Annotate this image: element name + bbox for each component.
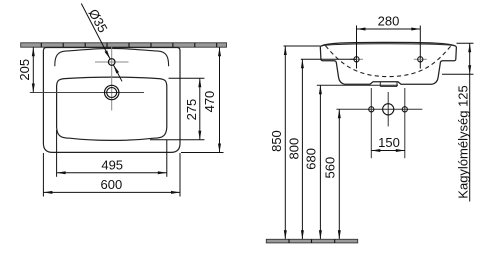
- tap hole centerline horizontal: [95, 61, 129, 63]
- dimension 280 (top): [357, 28, 421, 30]
- rim top front arc: [320, 42, 456, 46]
- deck inner back line: [55, 48, 169, 66]
- svg-text:150: 150: [378, 135, 400, 150]
- svg-text:800: 800: [287, 138, 302, 160]
- trap circles: [369, 107, 374, 112]
- svg-text:280: 280: [378, 14, 400, 29]
- mounting hole centerline ticks: [350, 58, 427, 60]
- svg-text:275: 275: [184, 99, 199, 121]
- bowl depth extension lines: [457, 42, 474, 44]
- svg-text:Kagylómélység 125: Kagylómélység 125: [455, 85, 470, 198]
- mounting hole extension lines (vertical): [357, 26, 421, 69]
- svg-text:470: 470: [202, 91, 217, 113]
- tap hole Ø35: [108, 59, 115, 66]
- dimension 600 (bottom outer): [43, 153, 180, 197]
- drain centerline / 205 extension line: [30, 92, 144, 94]
- dimension 495 (bottom inner): [57, 130, 167, 177]
- wall section bar (top): [21, 43, 227, 47]
- svg-text:560: 560: [323, 157, 338, 179]
- bowl depth dimension line (Kagylómélység 125): [469, 43, 471, 201]
- dimension line 560: [338, 109, 340, 239]
- basin outer rim (top view rounded rectangle): [43, 48, 180, 153]
- dimension 470 (right outer): [181, 47, 224, 152]
- extension line 680 (basin bottom level): [317, 84, 398, 86]
- drain/trap centerline (560 extension): [336, 108, 422, 110]
- dimension 205 (left): [32, 47, 34, 92]
- dimension line 850: [284, 46, 286, 239]
- svg-text:850: 850: [269, 130, 284, 152]
- trap vertical lines: [371, 88, 405, 158]
- dimension line 680: [319, 85, 321, 239]
- svg-text:495: 495: [101, 157, 123, 172]
- dimension line 800: [301, 59, 303, 239]
- dimension 150: [371, 150, 405, 152]
- floor section bar (bottom): [266, 239, 357, 243]
- extension line 850 (rim level): [284, 45, 321, 47]
- rim back edge arc: [321, 44, 455, 46]
- drain tab (front outline lower box): [380, 82, 397, 87]
- Ø35 leader line with arrows: [81, 4, 122, 82]
- svg-text:600: 600: [101, 177, 123, 192]
- extension line 800 (hole level): [301, 58, 357, 60]
- basin front outline: [320, 47, 456, 84]
- drain (double circle): [105, 85, 119, 99]
- svg-text:205: 205: [17, 59, 32, 81]
- dashed bowl section curve: [326, 46, 452, 77]
- mounting holes: [354, 57, 359, 62]
- vertical centerline: [111, 45, 113, 111]
- inner bowl outline: [57, 77, 167, 140]
- dimension 275 (right inner): [150, 78, 205, 140]
- svg-text:680: 680: [304, 148, 319, 170]
